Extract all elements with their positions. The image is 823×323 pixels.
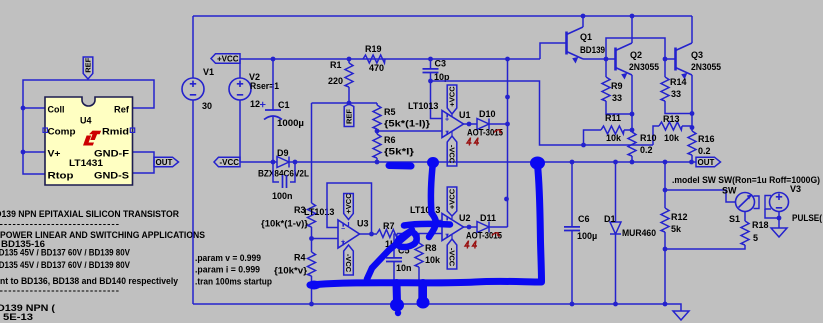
svg-text:100n: 100n <box>272 191 293 201</box>
svg-text:0.2: 0.2 <box>698 146 711 156</box>
wire Q2 base stub <box>606 58 616 60</box>
flag +VCC U3 <box>344 194 354 220</box>
wire U3 vplus stub <box>348 222 350 226</box>
svg-text:{5k*I}: {5k*I} <box>384 147 415 157</box>
wire R14 top lead <box>664 59 666 77</box>
wire U4 GND-F GND-S loop <box>133 152 155 173</box>
svg-text:R5: R5 <box>384 107 396 117</box>
junction R3 R4 <box>309 236 314 241</box>
svg-text:+: + <box>341 239 345 246</box>
svg-text:R8: R8 <box>425 243 437 253</box>
wire R11 left <box>584 130 602 145</box>
svg-text:GND-F: GND-F <box>94 149 130 159</box>
svg-text:−: − <box>445 232 449 239</box>
node V+ junction <box>21 150 26 155</box>
resistor R7 <box>377 230 397 238</box>
junction D9 cathode <box>293 160 298 165</box>
wire C1 bottom <box>272 117 274 162</box>
junction D1 rail <box>613 160 618 165</box>
svg-text:Q3: Q3 <box>691 50 703 60</box>
flag REF at U4 <box>83 57 93 79</box>
svg-text:Coll: Coll <box>48 105 65 115</box>
svg-text:+VCC: +VCC <box>448 86 457 107</box>
wire R6 bottom lead <box>376 158 378 162</box>
wire U1 plus drop <box>431 81 443 119</box>
junction R8 ground <box>417 302 422 307</box>
wire V3 minus to control <box>765 209 779 218</box>
wire R11 right <box>624 129 632 131</box>
marker blob G2 <box>417 297 430 309</box>
wire +VCC bus <box>240 58 540 60</box>
svg-text:2N3055: 2N3055 <box>691 62 721 72</box>
svg-text:R9: R9 <box>611 81 623 91</box>
junction C3 bottom <box>428 79 433 84</box>
wire rail main segment <box>290 161 697 163</box>
junction U2 feedback tap <box>431 160 436 165</box>
svg-text:D9: D9 <box>277 148 289 158</box>
junction D1 ground <box>613 302 618 307</box>
junction R6 bottom <box>375 160 380 165</box>
svg-text:BZX84C6V2L: BZX84C6V2L <box>258 169 309 179</box>
svg-text:D11: D11 <box>480 213 496 223</box>
node Coll junction <box>21 106 26 111</box>
resistor R6 <box>373 134 381 158</box>
capacitor C6 <box>564 227 580 231</box>
junction C6 rail <box>570 160 575 165</box>
svg-text:AOT-3015: AOT-3015 <box>467 128 503 138</box>
wire R5 top lead <box>376 103 378 105</box>
svg-text:-VCC: -VCC <box>447 248 456 267</box>
svg-text:+VCC: +VCC <box>448 188 457 209</box>
wire Q3 collector <box>691 16 693 43</box>
svg-text:Ref: Ref <box>114 105 130 115</box>
node stray upper <box>505 95 510 100</box>
svg-text:10k: 10k <box>425 255 441 265</box>
wire R13 left <box>653 126 659 145</box>
svg-text:{10k*(1-v)}: {10k*(1-v)} <box>261 219 309 229</box>
marker stroke F horizontal <box>310 281 542 285</box>
junction R14 emitter <box>690 111 695 116</box>
wire U4 top loop Ref <box>23 80 154 174</box>
diode D10 <box>477 119 489 130</box>
diode D11 <box>477 222 489 233</box>
svg-text:-VCC: -VCC <box>219 158 239 167</box>
svg-text:10n: 10n <box>396 263 412 273</box>
wire C5 bottom lead <box>393 262 395 305</box>
wire U2 vplus stub <box>451 215 453 219</box>
svg-text:OUT: OUT <box>698 158 715 167</box>
wire U3 plus input <box>312 238 339 240</box>
junction R18 return <box>663 247 668 252</box>
wire V2 bottom <box>239 100 241 162</box>
op-amp U2 <box>442 214 464 241</box>
svg-text:100µ: 100µ <box>577 231 597 241</box>
svg-text:R1: R1 <box>330 60 342 70</box>
svg-text:R12: R12 <box>671 212 688 222</box>
svg-text:10k: 10k <box>664 133 680 143</box>
junction REF node <box>347 101 352 106</box>
transistor Q1 <box>565 32 568 55</box>
wire R5 R6 mid <box>376 129 378 134</box>
wire Q1 emitter bus <box>583 58 606 60</box>
svg-text:BD139 NPN EPITAXIAL SILICON TR: BD139 NPN EPITAXIAL SILICON TRANSISTOR <box>0 209 179 219</box>
wire R10 bottom <box>631 156 633 162</box>
svg-text:C3: C3 <box>435 59 447 69</box>
svg-text:LT1431: LT1431 <box>69 158 103 168</box>
marker stroke A vertical <box>429 162 436 237</box>
svg-text:D1: D1 <box>604 214 616 224</box>
wire Q3 base stub <box>665 58 676 60</box>
wire U1 output <box>464 123 478 125</box>
wire U2 plus feedback <box>433 162 442 221</box>
wire U2 output <box>464 226 478 228</box>
wire U1 vminus stub <box>451 132 453 138</box>
svg-text:33: 33 <box>612 93 622 103</box>
diode D1 <box>610 222 621 234</box>
wire R13 right <box>682 125 692 127</box>
marker tail G2 <box>419 283 427 299</box>
svg-text:33: 33 <box>671 89 681 99</box>
capacitor C5 <box>386 258 402 262</box>
marker tail G1 <box>393 283 402 302</box>
marker stroke E vertical <box>538 165 542 281</box>
svg-text:R13: R13 <box>663 114 680 124</box>
svg-text:+VCC: +VCC <box>217 55 239 64</box>
svg-text:U2: U2 <box>459 213 471 223</box>
wire C3 top lead <box>430 59 432 68</box>
junction R11 sense <box>581 143 586 148</box>
wire R1 top lead <box>348 59 350 63</box>
junction R11 emitter <box>630 128 635 133</box>
resistor R19 <box>363 55 385 63</box>
resistor R5 <box>373 105 381 129</box>
flag -VCC U2 <box>447 239 457 269</box>
junction R10 rail <box>630 160 635 165</box>
svg-text:LT1013: LT1013 <box>304 207 334 217</box>
voltage source V1 <box>182 78 204 100</box>
wire U4 V+ stub <box>23 151 45 153</box>
junction Q1 collector rail <box>581 14 586 19</box>
wire Q2 collector <box>631 16 633 43</box>
IC U4 LT1431 body <box>45 97 133 185</box>
svg-text:-VCC: -VCC <box>344 254 353 273</box>
wire base bridge <box>606 38 665 59</box>
svg-text:R10: R10 <box>640 133 657 143</box>
Linear Technology logo <box>83 131 101 146</box>
svg-text:12: 12 <box>250 99 260 109</box>
op-amp U3 <box>338 220 360 248</box>
svg-text:2N3055: 2N3055 <box>629 62 659 72</box>
wire U3 feedback <box>327 183 372 234</box>
svg-text:Rtop: Rtop <box>48 171 75 181</box>
svg-text:.tran 100ms startup: .tran 100ms startup <box>195 277 272 287</box>
svg-text:5E-13: 5E-13 <box>3 312 33 322</box>
svg-text:−: − <box>341 226 345 233</box>
voltage source V3 <box>770 193 789 212</box>
marker blob G1 <box>390 299 404 312</box>
svg-text:0.2: 0.2 <box>640 145 653 155</box>
wire R9 top lead <box>605 59 607 77</box>
svg-text:V3: V3 <box>790 184 801 194</box>
resistor R9 <box>602 77 610 101</box>
svg-text:BD135 45V / BD137 60V / BD139: BD135 45V / BD137 60V / BD139 80V <box>0 260 130 270</box>
wire V1 bottom to ground rail <box>192 100 194 304</box>
svg-text:R14: R14 <box>670 77 687 87</box>
junction C6 ground <box>570 302 575 307</box>
node stray lower <box>504 197 509 202</box>
svg-text:R6: R6 <box>384 135 396 145</box>
switch S1 <box>736 193 755 212</box>
junction Q3 base <box>663 57 668 62</box>
junction C1 top <box>271 57 276 62</box>
wire D1 top <box>615 162 617 222</box>
junction R16 rail <box>689 160 694 165</box>
wire R14 bottom <box>665 101 692 114</box>
svg-text:SW: SW <box>722 186 737 196</box>
svg-text:LT1013: LT1013 <box>408 101 438 111</box>
dashed separator 1 <box>0 224 120 226</box>
junction C3 top <box>428 57 433 62</box>
svg-text:GND-S: GND-S <box>94 171 129 181</box>
svg-text:V+: V+ <box>48 149 61 159</box>
svg-text:5: 5 <box>753 233 758 243</box>
marker blob E top <box>530 157 545 170</box>
flag -VCC <box>214 157 240 167</box>
wire C3 bottom lead <box>430 73 432 82</box>
wire R7 to U2 minus <box>397 233 442 235</box>
wire R4 bottom <box>311 276 313 304</box>
svg-text:R11: R11 <box>605 113 621 123</box>
flag OUT right <box>696 157 721 167</box>
wire C5 top lead <box>393 234 395 259</box>
svg-text:BD139: BD139 <box>580 45 605 55</box>
svg-text:nt to BD136, BD138 and BD140 r: nt to BD136, BD138 and BD140 respectivel… <box>0 276 178 286</box>
flag -VCC U1 <box>447 136 457 166</box>
junction V3 minus <box>777 216 782 221</box>
junction Q2 collector rail <box>630 14 635 19</box>
wire R1 bottom lead <box>348 87 350 103</box>
wire Q3 emitter vertical <box>691 75 693 131</box>
resistor R18 <box>741 221 749 245</box>
wire C6 top <box>571 162 573 226</box>
resistor R14 <box>661 77 669 101</box>
marker blob A top <box>427 157 439 168</box>
junction D9 anode <box>271 160 276 165</box>
flag REF at R1 <box>344 104 354 127</box>
svg-text:C1: C1 <box>278 100 290 110</box>
red scribble at D10 <box>467 138 479 146</box>
wire R9 bottom <box>606 101 632 114</box>
wire Q1 collector <box>582 16 584 27</box>
wire C1 top <box>272 59 274 110</box>
junction R4 ground <box>309 302 314 307</box>
svg-text:.param v = 0.999: .param v = 0.999 <box>195 253 261 263</box>
wire clamp vertical <box>507 59 509 227</box>
svg-text:Q1: Q1 <box>580 32 592 42</box>
red scribble at D11 <box>465 241 477 249</box>
wire snubber cap loop <box>273 162 279 182</box>
junction R9 emitter <box>630 112 635 117</box>
junction R12 rail <box>663 160 668 165</box>
resistor R8 <box>415 243 423 267</box>
svg-text:R19: R19 <box>365 44 382 54</box>
wire REF node horizontal <box>312 102 378 104</box>
wire D1 bottom <box>615 234 617 304</box>
junction R12 ground <box>663 302 668 307</box>
V3 control bracket <box>765 196 771 210</box>
junction clamp top <box>505 57 510 62</box>
capacitor 100n plates <box>283 175 287 188</box>
flag +VCC <box>211 54 240 64</box>
switch S1 control bracket <box>754 196 760 209</box>
svg-text:U1: U1 <box>459 110 471 120</box>
resistor R16 <box>688 131 696 155</box>
svg-text:D10: D10 <box>479 109 496 119</box>
wire R12 bottom <box>664 232 666 304</box>
svg-text:R4: R4 <box>294 253 306 263</box>
junction R1 top <box>347 57 352 62</box>
resistor R10 <box>628 132 636 156</box>
resistor R13 <box>659 122 682 130</box>
junction R12 switch tap <box>663 188 668 193</box>
wire Q1 base step <box>540 43 567 59</box>
svg-text:+VCC: +VCC <box>344 193 353 214</box>
ground main <box>673 311 689 320</box>
wire C6 bottom <box>571 231 573 305</box>
junction R13 emitter <box>690 125 695 130</box>
svg-text:{5k*(1-I)}: {5k*(1-I)} <box>384 119 431 129</box>
resistor R4 <box>308 252 316 276</box>
wire R16 bottom <box>691 155 693 162</box>
resistor R12 <box>661 208 669 232</box>
svg-text:OUT: OUT <box>156 158 173 167</box>
svg-text:.param i = 0.999: .param i = 0.999 <box>195 265 260 275</box>
wire R12 top <box>664 162 666 208</box>
svg-text:R16: R16 <box>698 134 715 144</box>
svg-text:U4: U4 <box>80 116 92 126</box>
svg-text:Q2: Q2 <box>630 50 642 60</box>
svg-text:-VCC: -VCC <box>447 145 456 164</box>
svg-text:Comp: Comp <box>48 127 77 137</box>
svg-text:220: 220 <box>328 76 343 86</box>
junction Q2 base <box>604 57 609 62</box>
svg-text:REF: REF <box>84 57 93 72</box>
junction U3 output <box>369 232 374 237</box>
wire U1 vplus stub <box>451 113 453 117</box>
svg-text:MUR460: MUR460 <box>622 228 656 238</box>
svg-text:C6: C6 <box>578 214 590 224</box>
flag OUT at U4 <box>154 157 179 167</box>
svg-text:R7: R7 <box>383 221 395 231</box>
wire D11 cathode <box>489 226 508 228</box>
flag -VCC U3 <box>344 245 354 275</box>
diode D9 <box>277 157 289 168</box>
op-amp U1 <box>442 111 464 138</box>
svg-text:10k: 10k <box>606 133 622 143</box>
resistor R3 <box>308 203 316 227</box>
junction C5 ground <box>392 302 397 307</box>
wire V2 top <box>239 59 241 78</box>
wire snubber cap loop right <box>290 162 295 182</box>
wire R8 bottom lead <box>418 267 420 304</box>
marker stroke small capsule <box>389 162 411 170</box>
svg-text:1000µ: 1000µ <box>277 118 304 128</box>
junction D10 node <box>505 122 510 127</box>
wire R3 R4 mid <box>311 227 313 252</box>
marker blob F left <box>307 281 321 290</box>
capacitor C3 <box>423 69 439 73</box>
wire V1 top <box>192 16 194 78</box>
wire D10 cathode <box>489 123 508 125</box>
svg-text:BD135 45V / BD137 60V / BD139: BD135 45V / BD137 60V / BD139 80V <box>0 248 130 258</box>
svg-text:−: − <box>445 129 449 136</box>
junction R5 R6 <box>375 129 380 134</box>
voltage source V2 <box>229 78 251 100</box>
wire U3 out to R7 <box>372 233 378 235</box>
svg-text:R18: R18 <box>752 220 769 230</box>
svg-text:Rmid: Rmid <box>102 127 129 137</box>
wire C3 node to sense <box>431 81 654 145</box>
flag +VCC U1 <box>447 85 457 114</box>
wire U4 Coll stub <box>23 107 45 109</box>
transistor Q2 <box>614 48 617 71</box>
dashed separator 2 <box>0 290 120 292</box>
svg-text:AOT-3015: AOT-3015 <box>466 231 502 241</box>
wire R8 top lead <box>418 234 420 244</box>
marker loop at R7 <box>367 230 417 279</box>
svg-text:+: + <box>445 117 449 124</box>
wire R18 bottom return <box>665 245 745 249</box>
ground V3 <box>771 228 787 237</box>
svg-text:{10k*v}: {10k*v} <box>274 266 308 276</box>
wire ground rail <box>193 304 681 311</box>
wire rail left segment <box>240 161 277 163</box>
svg-text:5k: 5k <box>671 224 682 234</box>
junction U1 out <box>467 122 472 127</box>
svg-text:470: 470 <box>369 63 384 73</box>
pin Comp open square <box>43 128 47 132</box>
resistor R11 <box>601 126 624 134</box>
svg-text:30: 30 <box>202 101 212 111</box>
capacitor C1 polarized <box>264 110 282 120</box>
svg-text:REF: REF <box>345 109 354 124</box>
svg-text:PULSE(: PULSE( <box>792 213 822 223</box>
wire switch feed <box>665 190 736 202</box>
svg-text:Rser=1: Rser=1 <box>250 81 279 91</box>
wire Q2 emitter vertical <box>631 75 633 132</box>
wire U2 vminus stub <box>451 235 453 241</box>
wire REF node down to R3 <box>311 103 313 203</box>
svg-text:V1: V1 <box>203 67 214 77</box>
wire V3 bottom <box>778 212 780 229</box>
wire top 30V rail <box>193 15 692 17</box>
pin Rmid open square <box>130 128 134 132</box>
junction U2 out <box>467 225 472 230</box>
wire R18 top <box>744 212 746 222</box>
svg-text:U3: U3 <box>357 219 369 229</box>
flag +VCC U2 <box>447 187 457 216</box>
resistor R1 <box>345 63 353 87</box>
wire U1 minus input <box>377 130 442 132</box>
marker stroke over U2 input <box>404 224 450 226</box>
svg-text:S1: S1 <box>729 214 740 224</box>
transistor Q3 <box>674 48 677 71</box>
